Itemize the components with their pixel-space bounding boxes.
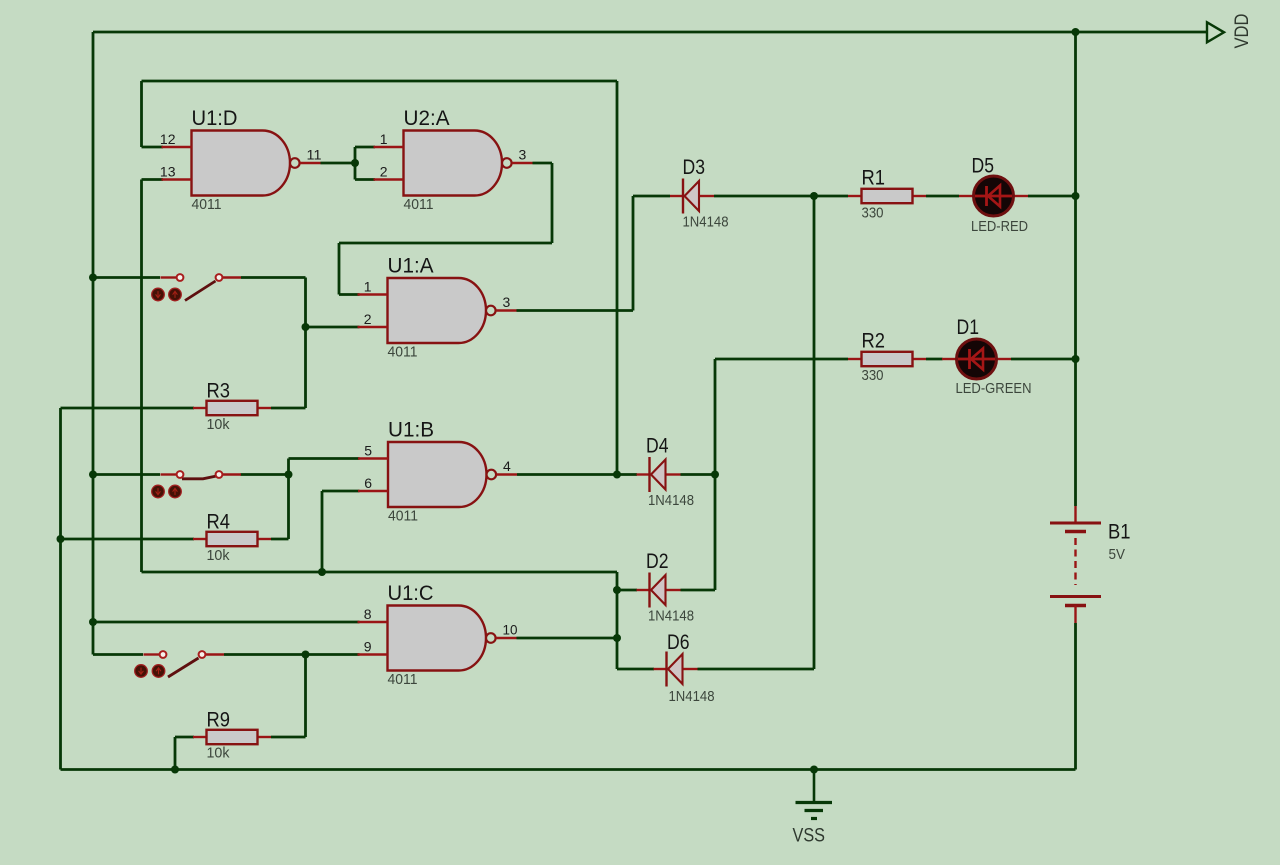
switch SW1 pole contact [177,274,184,281]
junction D4 right / x=715 [711,471,719,479]
svg-text:U1:A: U1:A [388,255,434,278]
junction VDD rail / battery branch [1072,28,1080,36]
wire U2:A output [533,162,553,165]
svg-text:LED-RED: LED-RED [971,218,1028,235]
wire U1:D output to U2:A inputs [321,162,356,165]
wire D2 left [617,589,637,592]
junction SW2 row / pin5 / R4 [285,471,293,479]
switch SW2 up actuator [169,485,182,498]
wire left rail x=93 [92,32,95,655]
wire switch SW2 row left [93,473,160,476]
wire x=175 down [174,737,177,770]
svg-text:4011: 4011 [388,344,418,361]
junction R4 row / left rail [57,535,65,543]
svg-text:LED-GREEN: LED-GREEN [956,380,1032,397]
svg-text:10k: 10k [207,547,230,564]
svg-text:VDD: VDD [1232,14,1253,49]
wire R9 row right [271,736,306,739]
wire R2 row left [715,358,848,361]
wire D4 to x=715 [681,473,716,476]
wire x=141.5 from U1:D pin 13 down [140,180,143,573]
svg-text:1N4148: 1N4148 [648,492,694,509]
junction left rail / SW1 row [89,274,97,282]
wire x=322 down to y=572 [321,491,324,572]
diode D6 (1N4148) [654,652,698,687]
wire R3 row right [271,407,306,410]
svg-text:VSS: VSS [793,826,826,847]
wire U2:A pin 2 [355,178,375,181]
wire D2 right [681,589,716,592]
wire U1:A pin 2 [306,326,360,329]
wire x=552 down [551,163,554,243]
switch SW2 throw contact [216,471,223,478]
svg-text:10k: 10k [207,416,230,433]
switch SW3 pole contact [160,651,167,658]
wire LED D1 to power rail [1011,358,1076,361]
junction y=572 / U1:B pin6 [318,568,326,576]
svg-text:U2:A: U2:A [404,107,450,130]
wire left rail x=60.5 [59,408,62,770]
wire U1:B output to D4 [517,473,637,476]
power terminal VDD arrow [1207,22,1224,42]
wire U2:A input bracket vertical [354,147,357,180]
resistor R3 [193,401,271,415]
junction D1 row / power rail [1072,355,1080,363]
svg-text:330: 330 [862,367,884,384]
wire D3 to R1 [714,195,848,198]
svg-text:1N4148: 1N4148 [648,608,694,625]
wire x=633 up to D3 [632,196,635,311]
wire x=715 R2 row to D2 [714,359,717,590]
wire x=814 D3 row to D6 row [813,196,816,669]
junction ground symbol / ground rail [810,766,818,774]
wire battery bottom to ground rail [1074,623,1077,770]
junction D5 row / power rail [1072,192,1080,200]
switch SW3 pole stub [144,653,160,655]
diode D4 (1N4148) [637,457,681,492]
resistor R9 [193,730,271,744]
junction U1:D out / U2:A inputs [351,159,359,167]
junction R9 branch / ground rail [171,766,179,774]
svg-text:D6: D6 [667,631,690,654]
svg-text:R4: R4 [207,511,231,534]
svg-text:D4: D4 [646,435,669,458]
wire U1:D pin 12 [142,146,164,149]
wire x=141.5 down to U1:D pin 12 [140,81,143,147]
wire D6 right [698,668,815,671]
svg-text:3: 3 [519,147,527,163]
wire x=305.5 SW1 to R3 [304,278,307,409]
wire U1:A pin 1 [339,293,360,296]
junction x=617 / U1:C out [613,634,621,642]
wire U1:C pin 8 [93,621,360,624]
wire LED D5 to power rail [1028,195,1076,198]
battery B1 (5V) [1050,506,1101,623]
NAND gate U1:C (4011) [358,606,517,671]
svg-text:B1: B1 [1108,521,1131,544]
wire x=305.5 SW3 to R9 [304,655,307,738]
wire x=288.5 to U1:B pin 5 [287,459,290,540]
switch SW3 throw contact [199,651,206,658]
svg-text:R2: R2 [862,330,886,353]
svg-text:9: 9 [364,639,372,655]
switch SW2 pole contact [177,471,184,478]
wire U2:A pin 1 [355,146,375,149]
junction left rail / U1:C pin8 [89,618,97,626]
wire y=572 across [142,571,618,574]
svg-text:D1: D1 [957,316,980,339]
switch SW1 pole stub [161,276,177,278]
svg-text:R3: R3 [207,380,231,403]
LED D1 (LED-GREEN) [942,339,1011,379]
wire y=243 across [339,242,552,245]
svg-text:4011: 4011 [404,196,434,213]
wire R9 row left [175,736,194,739]
svg-text:10: 10 [503,622,518,638]
wire D3 left [633,195,670,198]
junction D3 row / x=814 [810,192,818,200]
wire R4 row left [61,538,195,541]
wire R1 to LED D5 [926,195,959,198]
wire switch SW3 row left [93,653,143,656]
switch SW2 throw stub [223,473,241,475]
junction SW1 branch / U1:A pin2 [302,323,310,331]
wire R2 to LED D1 [926,358,943,361]
switch SW3 down actuator [135,665,148,678]
svg-text:1: 1 [364,279,372,295]
svg-text:U1:C: U1:C [388,582,434,605]
wire U1:C output [517,637,618,640]
wire bottom ground rail [61,768,1076,771]
switch SW3 lever [168,658,199,677]
switch SW1 throw stub [223,276,241,278]
diode D2 (1N4148) [637,573,681,608]
wire x=617 lower [616,572,619,669]
svg-text:6: 6 [364,475,372,491]
svg-text:4011: 4011 [192,196,222,213]
diode D3 (1N4148) [670,179,714,214]
NAND gate U1:B (4011) [358,442,517,507]
wire switch SW3 row right [224,653,360,656]
junction x=617 / D2 left [613,586,621,594]
junction left rail / SW2 row [89,471,97,479]
switch SW3 throw stub [206,653,224,655]
wire U1:A output [517,309,634,312]
ground symbol VSS [796,770,833,819]
switch SW2 pole stub [161,473,177,475]
svg-text:2: 2 [380,164,388,180]
svg-text:4: 4 [503,458,511,474]
svg-text:10k: 10k [207,745,230,762]
wire R3 row left [61,407,195,410]
junction SW3 row / R9 branch [302,651,310,659]
svg-text:1: 1 [380,131,388,147]
switch SW2 lever [182,476,217,479]
switch SW1 up actuator [169,288,182,301]
svg-text:4011: 4011 [388,671,418,688]
LED D5 (LED-RED) [959,176,1028,216]
switch SW3 up actuator [152,665,165,678]
wire switch SW1 row right [241,276,306,279]
svg-text:1N4148: 1N4148 [683,214,729,231]
svg-text:5V: 5V [1109,546,1126,563]
NAND gate U1:A (4011) [358,278,517,343]
resistor R2 [848,352,926,366]
svg-text:U1:D: U1:D [192,107,238,130]
resistor R4 [193,532,271,546]
switch SW1 down actuator [152,288,165,301]
svg-text:3: 3 [503,294,511,310]
NAND gate U2:A (4011) [374,131,533,196]
switch SW1 lever [185,281,216,301]
svg-text:11: 11 [307,147,322,163]
svg-text:R1: R1 [862,167,886,190]
wire switch SW2 row right [241,473,289,476]
wire feedback top y=81 [142,80,618,83]
svg-text:5: 5 [364,443,372,459]
svg-text:2: 2 [364,311,372,327]
wire D6 left [617,668,654,671]
NAND gate U1:D (4011) [162,131,321,196]
svg-text:D3: D3 [683,156,706,179]
wire U1:D pin 13 [142,178,164,181]
wire R4 row right [271,538,289,541]
svg-text:4011: 4011 [388,508,418,525]
svg-text:U1:B: U1:B [388,419,434,442]
wire U1:B pin 5 [289,457,360,460]
junction U1:B out / x=617 [613,471,621,479]
svg-text:13: 13 [160,164,176,180]
svg-text:12: 12 [160,131,176,147]
wire power rail x=1075.5 down to battery [1074,32,1077,506]
wire VDD top rail [93,31,1207,34]
svg-text:8: 8 [364,606,372,622]
wire switch SW1 row left [93,276,160,279]
switch SW1 throw contact [216,274,223,281]
svg-text:R9: R9 [207,709,231,732]
svg-text:330: 330 [862,205,884,222]
svg-text:1N4148: 1N4148 [669,688,715,705]
wire U1:B pin 6 horizontal [322,490,360,493]
resistor R1 [848,189,926,203]
svg-text:D2: D2 [646,550,669,573]
wire x=339 down to U1:A pin 1 [338,243,341,295]
wire x=617 upper from y=81 down to D4 row [616,81,619,475]
svg-text:D5: D5 [972,155,995,178]
switch SW2 down actuator [152,485,165,498]
